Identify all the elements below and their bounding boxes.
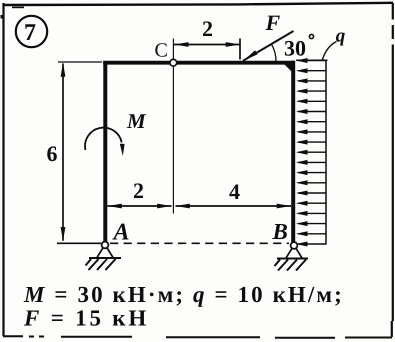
- svg-text:A: A: [112, 220, 130, 246]
- svg-text:30: 30: [284, 36, 306, 61]
- member left column: [103, 61, 107, 242]
- svg-text:B: B: [272, 219, 288, 244]
- dimension 2 top right tick: [239, 39, 241, 60]
- member right column: [291, 61, 295, 243]
- dimension 2 top label: [202, 16, 213, 41]
- dimension 6 top extension: [58, 61, 102, 63]
- label C: [155, 39, 168, 61]
- label q with leader: [322, 26, 346, 61]
- support A pin: [86, 242, 122, 270]
- svg-text:F = 15 кН: F = 15 кН: [23, 306, 149, 331]
- dimension 2 top line: [174, 42, 240, 47]
- dimension 2 bottom label: [133, 178, 144, 203]
- distributed load top edge: [296, 59, 328, 61]
- node C circle: [170, 59, 177, 66]
- force F vector: [243, 31, 294, 61]
- given values text line 1: [23, 282, 344, 307]
- distributed load boundary line: [325, 60, 327, 245]
- svg-text:2: 2: [202, 16, 213, 41]
- label B: [272, 219, 288, 244]
- dimension 4 label: [229, 179, 240, 204]
- dimension 6 label: [47, 141, 58, 166]
- dimension 2 bottom line: [108, 204, 172, 209]
- dimension 6 line: [61, 63, 66, 241]
- extension line under C: [172, 39, 174, 214]
- svg-text:F: F: [265, 10, 281, 35]
- label M: [126, 109, 147, 133]
- svg-text:6: 6: [47, 141, 58, 166]
- variant badge circle 7: [16, 16, 47, 47]
- distributed load arrows: [296, 58, 327, 247]
- support B pin: [275, 242, 309, 270]
- dashed line A to B: [110, 242, 289, 244]
- moment M arc: [85, 128, 125, 156]
- border right: [392, 3, 393, 337]
- svg-text:4: 4: [229, 179, 240, 204]
- svg-text:q: q: [336, 26, 346, 47]
- member top beam: [103, 61, 295, 65]
- label 30 deg: [284, 34, 314, 60]
- svg-text:C: C: [155, 39, 168, 61]
- svg-text:M = 30 кН·м; q = 10 кН/м;: M = 30 кН·м; q = 10 кН/м;: [23, 282, 344, 307]
- svg-text:2: 2: [133, 178, 144, 203]
- dimension 6 bottom extension: [57, 242, 101, 244]
- label A: [112, 220, 130, 246]
- svg-text:7: 7: [24, 20, 36, 46]
- angle arc 30: [271, 44, 276, 61]
- corner fillet top right: [285, 65, 296, 76]
- given values text line 2: [23, 306, 149, 331]
- dimension 4 line: [176, 204, 292, 209]
- border left: [2, 3, 4, 336]
- label F: [265, 10, 281, 35]
- border bottom: [3, 336, 392, 338]
- svg-text:M: M: [126, 109, 147, 133]
- border top: [1, 3, 394, 19]
